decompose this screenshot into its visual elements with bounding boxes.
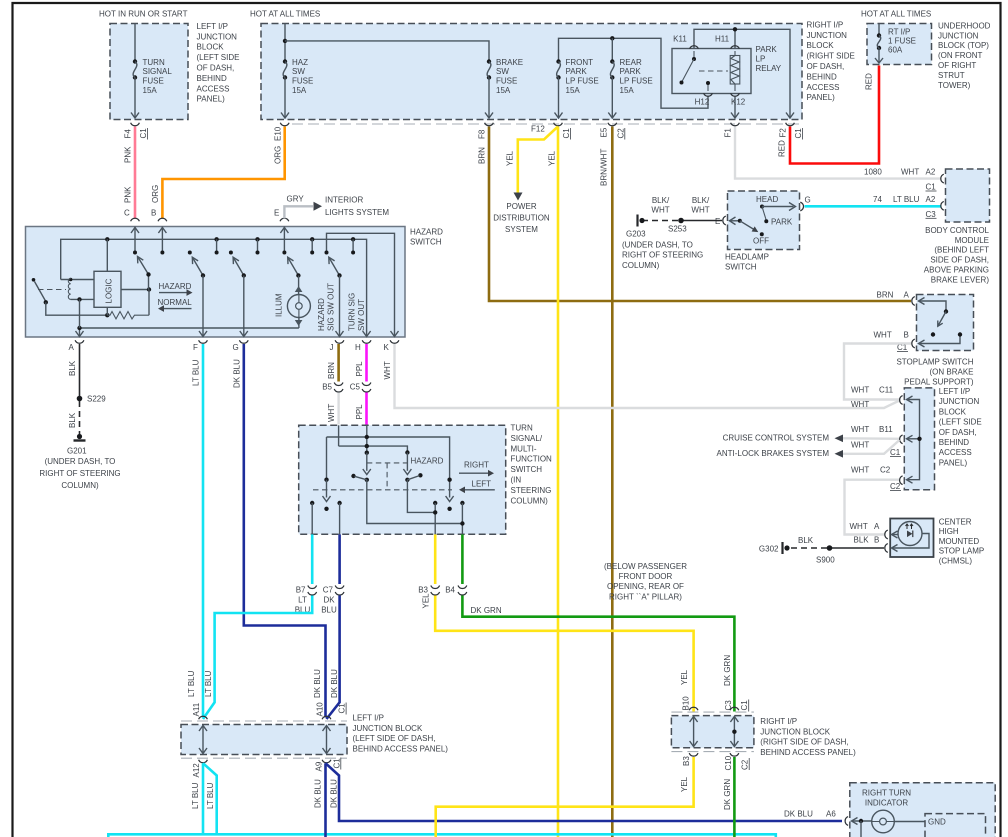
wire WHT 1080 from F1 to BCM: [735, 127, 942, 179]
svg-text:ACCESS: ACCESS: [807, 83, 840, 92]
wire BLK/WHT S253 to E: [681, 220, 722, 222]
wire K11/H11 feed to F2: [694, 29, 790, 117]
pin A9 connector: [322, 760, 331, 763]
wire YEL from switch through B3: [434, 534, 437, 584]
svg-text:BEHIND: BEHIND: [197, 74, 227, 83]
svg-text:OF RIGHT: OF RIGHT: [938, 61, 976, 70]
wire K feed line: [327, 233, 395, 336]
pin B3 connector: [689, 753, 698, 756]
svg-text:DK BLU: DK BLU: [784, 810, 813, 819]
svg-text:STOPLAMP SWITCH: STOPLAMP SWITCH: [896, 358, 973, 367]
left I/P junction block (bottom, A11/A12/A10/A9): [181, 725, 347, 755]
svg-text:PARK: PARK: [771, 218, 793, 227]
svg-text:BRN: BRN: [478, 147, 487, 164]
wire DK BLU from pin G to A10: [244, 344, 326, 718]
svg-text:B10: B10: [681, 696, 690, 711]
svg-text:POWER: POWER: [506, 202, 536, 211]
svg-text:15A: 15A: [143, 86, 158, 95]
svg-text:K11: K11: [673, 35, 687, 44]
wire line1: [327, 437, 450, 480]
wire YEL branch to power distribution: [518, 127, 558, 194]
wire turn signal fuse feed: [134, 24, 136, 62]
pin B (stoplamp switch): [912, 339, 915, 348]
svg-text:BEHIND: BEHIND: [939, 438, 969, 447]
wire WHT entry: [338, 425, 340, 446]
svg-text:LEFT I/P: LEFT I/P: [939, 387, 970, 396]
svg-text:BRN/WHT: BRN/WHT: [599, 149, 608, 186]
svg-text:BODY CONTROL: BODY CONTROL: [925, 226, 989, 235]
svg-text:GRY: GRY: [287, 195, 305, 204]
turn signal / multifunction switch box: [299, 425, 506, 534]
lamp ILLUM: [298, 276, 300, 295]
pin B11: [900, 435, 903, 444]
node bus1: [283, 39, 287, 43]
svg-text:UNDERHOOD: UNDERHOOD: [938, 21, 991, 30]
svg-text:SIG SW OUT: SIG SW OUT: [327, 283, 336, 331]
wire WHT from pin K to C11: [395, 344, 901, 408]
svg-text:BLOCK (TOP): BLOCK (TOP): [938, 41, 989, 50]
svg-text:HAZARD: HAZARD: [410, 228, 443, 237]
svg-text:HAZ: HAZ: [292, 58, 308, 67]
svg-text:S229: S229: [87, 395, 106, 404]
svg-text:(UNDER DASH, TO: (UNDER DASH, TO: [45, 457, 116, 466]
pin F12: [554, 123, 563, 126]
svg-text:SW OUT: SW OUT: [357, 299, 366, 331]
svg-text:BLK: BLK: [798, 536, 814, 545]
svg-text:(UNDER DASH, TO: (UNDER DASH, TO: [622, 241, 693, 250]
wire LT BLU from pin F to A11: [202, 344, 205, 718]
svg-text:HAZARD: HAZARD: [411, 457, 444, 466]
svg-text:BRN: BRN: [327, 362, 336, 379]
svg-text:NORMAL: NORMAL: [158, 298, 193, 307]
svg-text:GND: GND: [928, 818, 946, 827]
svg-text:FUSE: FUSE: [292, 77, 313, 86]
right I/P junction block (top, fuses and park lp relay): [261, 24, 802, 120]
svg-text:B5: B5: [322, 383, 332, 392]
wire BLK/WHT dashed from G203: [642, 220, 679, 222]
wire K12 to F1: [734, 97, 736, 118]
center high mounted stop lamp CHMSL: [890, 519, 933, 558]
relay PARK LP RELAY box: [672, 49, 751, 94]
pin F8: [485, 123, 494, 126]
svg-text:LT: LT: [298, 596, 307, 605]
svg-text:(RIGHT SIDE OF DASH,: (RIGHT SIDE OF DASH,: [760, 738, 848, 747]
svg-text:JUNCTION: JUNCTION: [197, 32, 238, 41]
svg-text:E: E: [715, 217, 720, 226]
mech dashed links: [367, 462, 408, 464]
connector B5: [334, 383, 343, 386]
wire GRY to interior lights: [284, 206, 313, 218]
wire pin B drop: [161, 227, 163, 253]
svg-text:WHT: WHT: [383, 361, 392, 379]
svg-text:A10: A10: [315, 702, 324, 717]
svg-text:ANTI-LOCK BRAKES SYSTEM: ANTI-LOCK BRAKES SYSTEM: [717, 449, 830, 458]
svg-text:BLK/: BLK/: [652, 196, 670, 205]
svg-text:C3: C3: [926, 210, 937, 219]
svg-text:JUNCTION BLOCK: JUNCTION BLOCK: [353, 724, 423, 733]
svg-text:C2: C2: [880, 466, 891, 475]
svg-text:WHT: WHT: [851, 466, 869, 475]
svg-text:C1: C1: [890, 448, 901, 457]
svg-text:DK GRN: DK GRN: [723, 655, 732, 686]
svg-text:B: B: [874, 536, 879, 545]
svg-text:RIGHT I/P: RIGHT I/P: [760, 717, 797, 726]
connector B7: [308, 586, 317, 589]
svg-text:C11: C11: [879, 386, 894, 395]
svg-text:BEHIND ACCESS PANEL): BEHIND ACCESS PANEL): [353, 744, 449, 753]
wire DK GRN below C10 to bottom: [733, 757, 736, 837]
svg-text:BLK: BLK: [68, 360, 77, 376]
switch arm center-left: [366, 453, 368, 471]
svg-text:F: F: [193, 343, 198, 352]
wire WHT C2 to CHMSL: [845, 480, 900, 535]
lamp bulb (CHMSL): [898, 522, 922, 546]
svg-text:BEHIND: BEHIND: [807, 72, 837, 81]
switch pole C arm: [138, 257, 149, 290]
svg-text:A: A: [874, 522, 880, 531]
svg-text:DK BLU: DK BLU: [313, 669, 322, 698]
svg-text:MOUNTED: MOUNTED: [939, 537, 980, 546]
svg-text:SW: SW: [292, 67, 305, 76]
svg-text:LT BLU: LT BLU: [893, 195, 920, 204]
ground G203: [636, 215, 638, 227]
svg-text:SIDE OF DASH,: SIDE OF DASH,: [930, 256, 989, 265]
wire YEL from F12 down page: [557, 127, 560, 837]
contact DK BLU out: [337, 501, 341, 505]
svg-text:INTERIOR: INTERIOR: [325, 196, 363, 205]
pin F2: [786, 123, 795, 126]
svg-text:H11: H11: [715, 35, 730, 44]
logic module: [94, 271, 121, 307]
svg-text:RIGHT: RIGHT: [464, 461, 489, 470]
wire BRN from pin J to B5: [337, 344, 340, 382]
svg-text:HEAD: HEAD: [756, 195, 778, 204]
switch arm center-right: [405, 450, 409, 454]
svg-text:B11: B11: [879, 425, 893, 434]
wire haz sw fuse feed: [284, 24, 286, 62]
svg-text:HAZARD: HAZARD: [317, 298, 326, 331]
internal pass-through arrows: [693, 717, 695, 746]
GND box: [925, 814, 986, 837]
svg-text:LT BLU: LT BLU: [204, 670, 213, 697]
svg-text:C7: C7: [323, 586, 334, 595]
svg-text:COLUMN): COLUMN): [511, 496, 549, 505]
pin arrows at bottom edge: [76, 331, 84, 337]
right turn indicator: [850, 783, 995, 837]
svg-text:TURN: TURN: [511, 424, 533, 433]
svg-text:60A: 60A: [888, 46, 903, 55]
switch OFF position arm from E: [729, 220, 740, 222]
pin C2: [900, 476, 903, 485]
svg-text:F8: F8: [478, 129, 487, 139]
svg-text:WHT: WHT: [651, 206, 669, 215]
svg-text:SIGNAL/: SIGNAL/: [511, 434, 543, 443]
svg-text:LEFT: LEFT: [472, 479, 492, 488]
svg-text:LIGHTS SYSTEM: LIGHTS SYSTEM: [325, 208, 389, 217]
svg-text:CENTER: CENTER: [939, 518, 972, 527]
underhood junction block RT I/P fuse: [867, 24, 932, 65]
ground G201: [77, 434, 82, 439]
pin E5: [608, 123, 617, 126]
svg-text:DK BLU: DK BLU: [329, 779, 338, 808]
terminal H12: [704, 93, 713, 96]
pin A (stoplamp switch): [912, 297, 915, 306]
svg-text:YEL: YEL: [547, 150, 556, 166]
svg-text:SIGNAL: SIGNAL: [143, 67, 173, 76]
svg-text:J: J: [330, 343, 334, 352]
switch pole ILLUM arm: [288, 258, 299, 276]
svg-text:K12: K12: [731, 98, 746, 107]
svg-text:B3: B3: [418, 586, 428, 595]
svg-text:E5: E5: [599, 127, 608, 137]
svg-text:JUNCTION: JUNCTION: [807, 31, 848, 40]
connector B4: [458, 586, 467, 589]
svg-text:C1: C1: [794, 128, 803, 139]
svg-text:A: A: [904, 291, 910, 300]
svg-text:LEFT I/P: LEFT I/P: [353, 714, 384, 723]
svg-text:RIGHT OF STEERING: RIGHT OF STEERING: [39, 469, 120, 478]
svg-text:HOT AT ALL TIMES: HOT AT ALL TIMES: [861, 10, 931, 19]
svg-text:SWITCH: SWITCH: [410, 238, 442, 247]
wire contact stubs: [216, 239, 218, 252]
svg-text:(ON BRAKE: (ON BRAKE: [929, 368, 973, 377]
svg-text:A2: A2: [926, 195, 936, 204]
svg-text:A11: A11: [192, 702, 201, 716]
svg-text:A12: A12: [192, 763, 201, 778]
contact YEL out: [433, 501, 437, 505]
wire RED from RT I/P fuse to F2: [790, 66, 879, 164]
svg-text:PEDAL SUPPORT): PEDAL SUPPORT): [904, 378, 974, 387]
svg-text:TURN: TURN: [143, 58, 165, 67]
svg-text:WHT: WHT: [851, 441, 869, 450]
svg-text:F4: F4: [124, 129, 133, 139]
svg-text:C1: C1: [332, 758, 341, 769]
wire line2: [339, 446, 408, 452]
splice S253: [678, 218, 684, 224]
terminal H11: [731, 46, 740, 49]
wire WHT stoplamp B to C11: [844, 344, 911, 400]
svg-text:C1: C1: [562, 128, 571, 139]
svg-text:WHT: WHT: [691, 206, 709, 215]
svg-text:HIGH: HIGH: [939, 527, 959, 536]
svg-text:74: 74: [873, 195, 882, 204]
svg-text:BLOCK: BLOCK: [939, 407, 967, 416]
fuse RT I/P 1 FUSE 60A: [878, 24, 880, 36]
hazard button switch: [32, 278, 36, 282]
wire DK BLU below A9 straight: [324, 763, 327, 837]
svg-text:COLUMN): COLUMN): [61, 481, 99, 490]
svg-text:OF DASH,: OF DASH,: [807, 62, 845, 71]
wire bus2 front/rear park fuses: [559, 38, 709, 108]
svg-text:MODULE: MODULE: [955, 236, 989, 245]
svg-text:STEERING: STEERING: [511, 486, 552, 495]
svg-text:(BELOW PASSENGER: (BELOW PASSENGER: [604, 562, 687, 571]
svg-text:ABOVE PARKING: ABOVE PARKING: [924, 266, 989, 275]
switch arm (stoplamp): [938, 312, 946, 327]
wire pin E drop: [283, 227, 285, 253]
svg-text:DK GRN: DK GRN: [723, 779, 732, 810]
pin F1: [731, 123, 740, 126]
pin connectors bottom A F G J H K: [75, 340, 84, 343]
wire DK BLU from C7 to A10: [338, 534, 341, 584]
pin A10 connector: [322, 716, 331, 719]
wire top bus: [61, 239, 367, 336]
svg-text:BRAKE: BRAKE: [496, 58, 523, 67]
wire DK BLU below A9 jog to A6: [326, 763, 843, 821]
svg-text:PARK: PARK: [566, 67, 588, 76]
contact DK GRN out: [460, 501, 464, 505]
svg-text:WHT: WHT: [851, 425, 869, 434]
svg-text:SWITCH: SWITCH: [511, 465, 543, 474]
svg-text:B4: B4: [445, 586, 455, 595]
wire pin C drop: [134, 227, 136, 253]
contact LT BLU out: [310, 501, 314, 505]
svg-text:LP: LP: [756, 55, 766, 64]
left I/P junction block (top, turn signal fuse): [110, 24, 188, 120]
headlamp switch: [728, 191, 800, 250]
lamp ILLUM lower arrow: [295, 320, 303, 326]
relay switch K11-H12: [693, 51, 695, 59]
fuse REAR PARK LP FUSE 15A: [611, 38, 613, 61]
svg-text:15A: 15A: [496, 86, 511, 95]
svg-text:LP FUSE: LP FUSE: [566, 77, 599, 86]
svg-text:FUSE: FUSE: [496, 77, 517, 86]
svg-text:PNK: PNK: [124, 146, 133, 163]
svg-text:ACCESS: ACCESS: [197, 84, 230, 93]
wire PPL entry: [366, 425, 368, 452]
switch pole G: [229, 251, 233, 255]
svg-text:DK BLU: DK BLU: [313, 779, 322, 808]
svg-text:WHT: WHT: [850, 522, 868, 531]
wire LT BLU 74 from headlamp switch to BCM: [805, 205, 942, 208]
svg-text:RIGHT TURN: RIGHT TURN: [862, 789, 911, 798]
svg-text:G203: G203: [626, 230, 646, 239]
svg-text:RED: RED: [778, 140, 787, 157]
svg-text:C2: C2: [890, 482, 901, 491]
svg-text:A: A: [69, 343, 75, 352]
wire PPL from C5 to multifunction switch: [365, 393, 368, 425]
wire BRN/WHT from E5 down page: [611, 127, 614, 837]
wire BRN from F8 to stoplamp switch: [489, 127, 911, 302]
fuse Turn Signal Fuse 15A: [133, 59, 137, 63]
switch lower arm right: [449, 480, 451, 498]
svg-text:BRN: BRN: [877, 291, 894, 300]
wire BLK from pin A to S229/G201: [79, 344, 81, 397]
wire PPL from pin H to C5: [365, 344, 368, 382]
svg-text:WHT: WHT: [851, 400, 869, 409]
pin B10 connector: [689, 707, 698, 710]
svg-text:HOT AT ALL TIMES: HOT AT ALL TIMES: [250, 10, 320, 19]
pin F4 connector: [131, 123, 140, 126]
pin connectors top C B E: [131, 218, 140, 221]
pin K connector: [845, 817, 848, 826]
svg-text:DISTRIBUTION: DISTRIBUTION: [493, 214, 550, 223]
svg-text:YEL: YEL: [422, 593, 431, 609]
stoplamp switch: [917, 295, 974, 351]
pin B: [885, 544, 888, 553]
resistor: [107, 312, 149, 319]
svg-text:B3: B3: [682, 756, 691, 766]
svg-text:OPENING, REAR OF: OPENING, REAR OF: [607, 582, 684, 591]
svg-text:OFF: OFF: [753, 237, 769, 246]
svg-text:DK: DK: [323, 596, 335, 605]
hazard switch box: [26, 227, 406, 338]
svg-text:C2: C2: [741, 759, 750, 770]
svg-text:K: K: [384, 343, 390, 352]
svg-text:RELAY: RELAY: [756, 64, 782, 73]
svg-text:15A: 15A: [620, 86, 635, 95]
svg-text:C5: C5: [350, 383, 361, 392]
svg-text:E10: E10: [273, 126, 282, 141]
svg-text:(CHMSL): (CHMSL): [939, 556, 973, 565]
svg-text:PANEL): PANEL): [807, 93, 836, 102]
svg-text:FUNCTION: FUNCTION: [511, 455, 553, 464]
svg-text:1 FUSE: 1 FUSE: [888, 37, 916, 46]
svg-text:RT I/P: RT I/P: [888, 28, 910, 37]
svg-text:ORG: ORG: [151, 185, 160, 203]
svg-text:B: B: [151, 209, 156, 218]
wire LT BLU below A12 straight: [202, 763, 205, 834]
svg-text:(RIGHT SIDE: (RIGHT SIDE: [807, 52, 855, 61]
svg-text:DK BLU: DK BLU: [232, 359, 241, 388]
svg-text:C1: C1: [740, 700, 749, 711]
svg-text:C: C: [124, 209, 130, 218]
wire pivot to DK GRN: [367, 480, 463, 524]
svg-text:FUSE: FUSE: [143, 77, 164, 86]
wire stoplamp A to contact: [919, 301, 947, 311]
fuse FRONT PARK LP FUSE 15A: [556, 59, 560, 63]
svg-text:S900: S900: [816, 556, 835, 565]
wire bus to brake sw fuse: [285, 41, 489, 61]
svg-text:G201: G201: [67, 447, 87, 456]
svg-text:LT BLU: LT BLU: [187, 670, 196, 697]
svg-text:CRUISE CONTROL SYSTEM: CRUISE CONTROL SYSTEM: [723, 434, 830, 443]
wire WHT from B5 to multifunction switch: [337, 393, 339, 425]
svg-text:OF DASH,: OF DASH,: [197, 64, 235, 73]
pin C10 connector: [730, 753, 739, 756]
svg-text:OF DASH,: OF DASH,: [939, 428, 977, 437]
svg-text:ACCESS: ACCESS: [939, 448, 972, 457]
svg-text:DK BLU: DK BLU: [330, 669, 339, 698]
svg-text:15A: 15A: [566, 86, 581, 95]
right I/P junction block (bottom, B10/C3/B3/C10): [671, 716, 754, 748]
svg-text:SWITCH: SWITCH: [725, 263, 757, 272]
wire LT BLU from switch to B7: [311, 534, 314, 584]
svg-text:ILLUM: ILLUM: [275, 293, 284, 317]
svg-text:PPL: PPL: [355, 361, 364, 377]
svg-text:F12: F12: [531, 125, 545, 134]
svg-text:TURN SIG: TURN SIG: [348, 293, 357, 331]
wire YEL below B3 to bottom left: [436, 757, 694, 837]
svg-text:WHT: WHT: [874, 331, 892, 340]
pin C11: [900, 396, 903, 405]
switch pole J: [329, 258, 340, 276]
svg-text:E: E: [274, 209, 279, 218]
wire LT BLU from B7 to A11: [203, 596, 312, 720]
svg-text:DK GRN: DK GRN: [471, 606, 502, 615]
svg-text:TOWER): TOWER): [938, 81, 971, 90]
svg-text:JUNCTION: JUNCTION: [938, 31, 979, 40]
pin E10: [280, 123, 289, 126]
relay mech dashed link: [699, 70, 728, 72]
svg-text:B: B: [904, 331, 909, 340]
relay coil H11-K12: [734, 51, 736, 91]
terminal K11: [690, 46, 699, 49]
svg-text:PPL: PPL: [355, 404, 364, 420]
svg-text:15A: 15A: [292, 86, 307, 95]
svg-text:JUNCTION BLOCK: JUNCTION BLOCK: [760, 727, 830, 736]
svg-text:JUNCTION: JUNCTION: [939, 397, 980, 406]
